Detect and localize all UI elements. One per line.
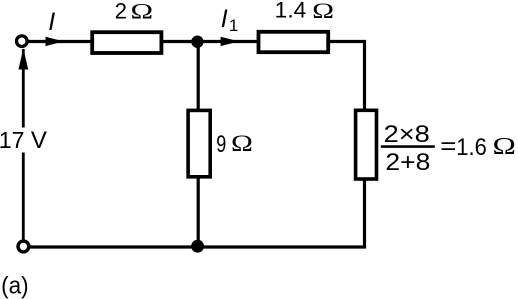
equation fraction bar: [381, 145, 435, 148]
svg-text:Ω: Ω: [131, 0, 154, 23]
label 1.4 ohm value: [275, 0, 334, 23]
svg-text:2: 2: [115, 0, 127, 23]
svg-text:I: I: [221, 5, 228, 33]
wire left vertical lower (source branch, below 17 V label): [22, 153, 25, 241]
node junction dot bottom: [191, 240, 204, 253]
label source 17 V: [0, 127, 47, 154]
resistor 1.4 ohm: [259, 32, 329, 52]
svg-text:=: =: [440, 133, 456, 160]
wire middle vertical from 9-ohm resistor to bottom junction: [197, 176, 200, 247]
svg-text:1.4: 1.4: [275, 0, 307, 22]
svg-text:1.6: 1.6: [456, 134, 487, 161]
arrow for source voltage pointing up: [18, 48, 28, 69]
svg-text:9: 9: [216, 131, 226, 158]
wire top segment from 2-ohm resistor through junction to 1.4-ohm resistor: [160, 40, 259, 43]
terminal bottom-left open circle: [18, 241, 29, 252]
resistor 1.6 ohm equivalent: [356, 110, 377, 179]
wire right vertical from 1.6-ohm resistor to bottom wire: [363, 179, 366, 247]
label 2 ohm value: [115, 0, 153, 23]
node junction dot top: [191, 36, 203, 48]
svg-text:2+8: 2+8: [385, 149, 430, 176]
svg-text:I: I: [48, 8, 55, 36]
label current I1: [221, 5, 239, 35]
svg-text:V: V: [31, 127, 47, 154]
svg-text:(a): (a): [1, 272, 29, 299]
svg-text:17: 17: [0, 127, 24, 153]
wire top-right segment with corner down to 1.6-ohm resistor: [326, 42, 365, 111]
equation result = 1.6 ohm: [440, 133, 516, 161]
arrow for current I: [46, 37, 64, 46]
svg-text:Ω: Ω: [312, 0, 334, 23]
terminal top-left open circle: [17, 36, 28, 47]
wire bottom segment: [28, 245, 366, 248]
arrow for current I1: [221, 37, 239, 46]
svg-text:1: 1: [229, 16, 238, 35]
label 9 ohm value: [216, 131, 253, 158]
wire middle vertical from junction to 9-ohm resistor: [197, 42, 200, 111]
resistor 9 ohm: [188, 110, 210, 176]
svg-text:Ω: Ω: [231, 131, 253, 156]
wire left vertical upper (source branch, above 17 V label): [22, 49, 25, 128]
resistor 2 ohm: [92, 32, 161, 53]
svg-text:2×8: 2×8: [384, 121, 430, 148]
wire top segment from terminal to 2-ohm resistor: [27, 40, 92, 43]
svg-text:Ω: Ω: [493, 134, 516, 160]
